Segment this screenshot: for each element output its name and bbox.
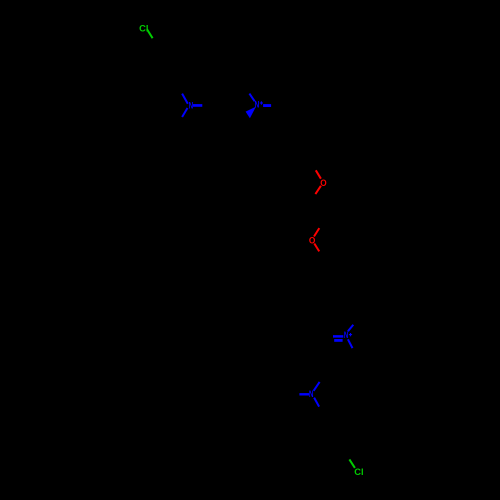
bond O up-right (red half) [314, 228, 319, 236]
bond O down-left (red half) [315, 186, 321, 194]
bond O up-left (red half) [316, 170, 321, 178]
bond N down-right (blue half) [314, 398, 319, 407]
charge plus (top N+) [260, 101, 263, 104]
bond O down-right (red half) [314, 244, 319, 252]
double bond C=N+ line 2 (blue half) [334, 339, 342, 342]
bond N left (blue half) [299, 393, 309, 395]
svg-text:N: N [189, 101, 194, 111]
bond Cl-C (green half, bottom) [349, 459, 355, 468]
bond Cl-C (green half) [147, 29, 153, 38]
bond N up-left (blue half) [182, 94, 188, 104]
wedge bond N+ down-left (blue) [246, 107, 256, 119]
bond N right (blue half) [193, 104, 202, 107]
svg-text:Cl: Cl [139, 24, 148, 34]
double bond C=N+ line 1 (blue half) [333, 335, 343, 338]
bond N+ right (blue half) [263, 104, 271, 107]
bond N+ down-right (blue half) [348, 339, 353, 348]
bond N+ up-left (blue half) [249, 94, 254, 102]
charge plus (bottom N+) [349, 333, 352, 336]
svg-text:Cl: Cl [354, 467, 363, 477]
bond N+ up-right (blue half) [348, 325, 353, 332]
bond N down-left (blue half) [182, 108, 187, 117]
bond N up-right (blue half) [314, 382, 320, 391]
svg-text:N: N [344, 330, 349, 340]
svg-text:N: N [309, 389, 314, 399]
